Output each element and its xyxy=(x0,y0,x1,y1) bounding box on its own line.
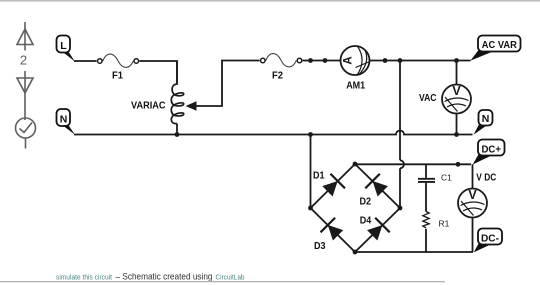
wire VDC branch top xyxy=(472,164,474,189)
wire C1 top lead xyxy=(425,164,427,178)
bottom divider line xyxy=(0,281,445,282)
wire N line with hop over x=400 xyxy=(74,131,473,135)
svg-text:2: 2 xyxy=(20,53,27,68)
svg-text:N: N xyxy=(60,113,68,125)
top border line xyxy=(0,0,540,2)
down triangle symbol xyxy=(17,71,33,120)
svg-text:D3: D3 xyxy=(314,240,326,252)
wire F1 to VARIAC top corner xyxy=(140,61,178,84)
wire VAC branch bottom xyxy=(456,113,458,135)
wire hot vertical x=400 with hop over DC+ rail xyxy=(399,61,401,209)
node AC VAR flag xyxy=(470,36,520,61)
node N flag (right) xyxy=(474,110,493,135)
svg-text:VARIAC: VARIAC xyxy=(131,101,166,112)
svg-text:L: L xyxy=(60,40,67,52)
node dot on top wire x385 xyxy=(383,58,388,63)
junction N line / VAC branch xyxy=(454,132,459,137)
svg-text:VAC: VAC xyxy=(419,93,437,104)
clock circle symbol xyxy=(16,118,36,149)
svg-text:CircuitLab: CircuitLab xyxy=(216,273,245,282)
svg-text:D4: D4 xyxy=(360,215,372,227)
svg-text:AM1: AM1 xyxy=(346,81,365,92)
svg-text:A: A xyxy=(342,56,354,64)
svg-text:C1: C1 xyxy=(441,173,452,183)
bridge right vertex xyxy=(398,206,403,211)
svg-text:– Schematic created using: – Schematic created using xyxy=(116,272,213,283)
svg-text:V: V xyxy=(468,188,477,202)
node DC- flag xyxy=(474,229,502,253)
svg-text:R1: R1 xyxy=(439,219,450,229)
svg-text:AC VAR: AC VAR xyxy=(482,39,517,51)
diode D1 (left vertex to top vertex) xyxy=(320,174,345,199)
wire VAC branch top xyxy=(456,61,458,86)
junction DC+ rail dot xyxy=(456,162,461,167)
wire DC- rail xyxy=(355,251,473,253)
diode D3 (bottom vertex to left vertex) xyxy=(321,218,346,243)
node L flag xyxy=(57,36,76,62)
node N flag (left) xyxy=(57,109,76,135)
hop of vertical over DC+ rail xyxy=(400,160,404,168)
svg-text:simulate this circuit: simulate this circuit xyxy=(56,273,113,282)
wire VARIAC wiper to F2 xyxy=(197,61,260,107)
up triangle symbol xyxy=(17,22,33,51)
bridge left vertex xyxy=(308,206,313,211)
junction N line / VARIAC xyxy=(175,132,180,137)
wire N to bridge left vertex xyxy=(310,135,312,209)
wire F2 to AM1 xyxy=(303,60,341,62)
svg-text:DC-: DC- xyxy=(481,232,499,244)
wire VARIAC bottom lead xyxy=(176,124,178,135)
junction top wire / hot vertical xyxy=(398,58,403,63)
svg-text:F1: F1 xyxy=(112,70,123,81)
bridge bottom vertex xyxy=(353,250,358,255)
svg-text:F2: F2 xyxy=(272,70,283,81)
svg-text:V DC: V DC xyxy=(476,173,496,184)
junction N line / bridge left branch xyxy=(308,132,313,137)
svg-text:D2: D2 xyxy=(360,196,372,208)
wire DC+ rail xyxy=(355,163,471,165)
diode D4 (bottom vertex to right vertex) xyxy=(365,218,390,243)
wire C1-R1 middle lead xyxy=(425,183,427,212)
bridge edges xyxy=(311,164,401,252)
diode D2 (right vertex to top vertex) xyxy=(365,174,390,199)
VARIAC wiper arrow xyxy=(186,101,197,110)
svg-text:D1: D1 xyxy=(313,170,325,182)
wire L to F1 xyxy=(74,60,97,62)
wire R1 bottom lead xyxy=(425,229,427,252)
junction top wire / VAC branch xyxy=(454,58,459,63)
node dot on top wire x325 xyxy=(323,58,328,63)
node dot on top wire x310 xyxy=(308,58,313,63)
svg-text:V: V xyxy=(452,84,461,98)
bridge top vertex xyxy=(353,162,358,167)
fuse F2 xyxy=(261,54,302,67)
svg-text:N: N xyxy=(482,113,490,125)
wire AM1 to AC VAR xyxy=(370,60,471,62)
wire VDC branch bottom xyxy=(472,217,474,252)
node DC+ flag xyxy=(473,140,505,165)
svg-text:DC+: DC+ xyxy=(481,143,501,155)
